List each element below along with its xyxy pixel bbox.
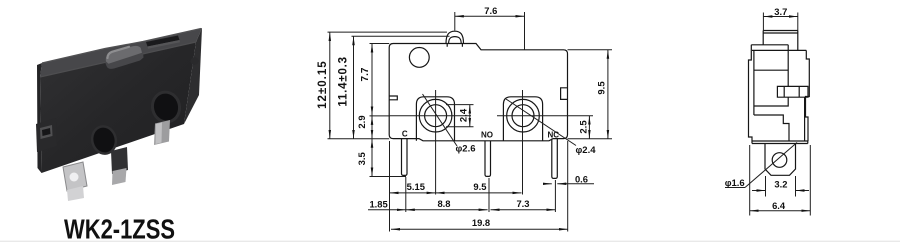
base plate <box>752 141 808 144</box>
dim 3.5 <box>371 139 373 177</box>
hole 2 boss <box>503 97 542 141</box>
svg-text:7.7: 7.7 <box>360 67 371 81</box>
leader phi2.6 <box>423 94 458 146</box>
dim 0.6 <box>544 183 552 185</box>
ext top line 11.4 <box>352 35 450 37</box>
ext body bottom left <box>328 138 390 140</box>
svg-text:0.6: 0.6 <box>575 174 588 185</box>
dim 3.2 <box>752 190 766 192</box>
ext top line 12 <box>328 31 448 33</box>
inner contour upper <box>754 45 788 115</box>
button dome inner <box>449 37 462 44</box>
svg-text:2.9: 2.9 <box>357 115 368 128</box>
terminal hole <box>772 153 787 168</box>
ext 2.4 ticks <box>446 104 474 106</box>
centerline hole2 vertical <box>522 90 524 195</box>
svg-text:7.3: 7.3 <box>516 198 529 209</box>
switch right end sliver <box>184 28 202 124</box>
dim 9.5 right <box>607 50 609 139</box>
svg-text:3.7: 3.7 <box>774 6 787 17</box>
ext 3.7 <box>762 13 764 31</box>
ext bottom verticals <box>389 141 391 232</box>
ext 7.6 left <box>454 12 456 31</box>
side body top lid <box>751 45 806 51</box>
svg-text:2.5: 2.5 <box>579 120 590 134</box>
right edge notch <box>561 88 568 100</box>
leader phi2.4 <box>506 99 576 146</box>
svg-text:1.85: 1.85 <box>369 198 387 209</box>
svg-text:6.4: 6.4 <box>772 200 786 211</box>
body outline <box>389 44 567 141</box>
pin C <box>402 139 408 176</box>
front hole 1 <box>88 122 120 157</box>
svg-text:C: C <box>402 130 408 139</box>
svg-text:NC: NC <box>548 131 560 140</box>
svg-text:φ1.6: φ1.6 <box>725 178 745 189</box>
svg-text:NO: NO <box>481 131 493 140</box>
svg-text:9.5: 9.5 <box>597 81 608 95</box>
ext 6.4 <box>749 145 751 216</box>
svg-text:3.2: 3.2 <box>774 179 787 190</box>
pin right <box>154 120 170 145</box>
svg-text:9.5: 9.5 <box>473 181 486 192</box>
svg-text:5.15: 5.15 <box>407 181 425 192</box>
top pivot hole <box>409 48 429 68</box>
side body right edge <box>806 50 810 141</box>
svg-text:11.4±0.3: 11.4±0.3 <box>338 56 350 106</box>
svg-text:3.5: 3.5 <box>357 151 368 165</box>
svg-text:2.4: 2.4 <box>459 108 470 122</box>
ext body top left (7.7) <box>370 43 390 45</box>
dim 6.4 <box>750 210 811 212</box>
switch top face <box>40 28 202 77</box>
centerline hole1 horizontal <box>390 115 471 117</box>
svg-text:8.8: 8.8 <box>437 198 450 209</box>
ridge highlight <box>40 42 196 77</box>
svg-text:12±0.15: 12±0.15 <box>317 60 329 109</box>
ext right top <box>568 49 613 51</box>
switch front face <box>40 42 196 173</box>
ext pin bottom left <box>370 176 407 178</box>
pin NC <box>552 139 558 179</box>
dim 11.4 <box>353 36 355 139</box>
left edge notch <box>389 96 397 100</box>
dim 9.5 bottom <box>436 192 522 194</box>
dim 7.7 <box>371 44 373 116</box>
dim 19.8 <box>391 228 568 230</box>
terminal slot rect <box>777 86 808 97</box>
centerline hole2 horizontal <box>497 115 593 117</box>
svg-text:φ2.6: φ2.6 <box>455 144 475 155</box>
centerline hole1 vertical <box>435 90 437 195</box>
side body left edge <box>749 45 753 141</box>
pivot bump right <box>190 57 198 65</box>
ext 3.2 <box>765 176 767 197</box>
dim 2.5 right <box>588 116 590 139</box>
button stem lines <box>447 44 462 47</box>
ext hole centerline tick left <box>370 115 391 117</box>
dim 3.7 <box>763 16 797 18</box>
pin left (bright) <box>63 162 87 191</box>
front hole 2 <box>147 87 184 126</box>
top face slot <box>146 36 180 47</box>
dim 12 <box>329 32 331 139</box>
dim 2.4 <box>469 105 471 127</box>
button dome outer <box>446 31 464 43</box>
dim 2.9 <box>371 116 373 139</box>
dim 1.85 <box>368 209 406 211</box>
bottom faint edge <box>0 241 900 242</box>
dim 7.3 <box>491 209 556 211</box>
middle drawing texts <box>317 5 608 228</box>
leader phi1.6 <box>725 187 745 189</box>
terminal block <box>765 144 796 176</box>
dim 8.8 <box>406 209 488 211</box>
inner contour lower <box>754 97 805 141</box>
dim 5.15 <box>390 192 436 194</box>
plunger button <box>105 46 143 69</box>
ext 7.6 right <box>524 12 526 50</box>
svg-text:7.6: 7.6 <box>484 5 497 16</box>
left latch <box>36 118 57 152</box>
hole 1 circles <box>419 99 452 132</box>
hole 2 circles <box>507 99 540 132</box>
side outline left <box>763 31 798 51</box>
dim 7.6 <box>455 15 525 17</box>
pin middle <box>111 147 128 174</box>
hole 1 boss <box>416 97 454 141</box>
svg-text:WK2-1ZSS: WK2-1ZSS <box>64 214 175 242</box>
ext right bottom <box>568 138 613 140</box>
svg-text:φ2.4: φ2.4 <box>575 145 596 156</box>
pin NO <box>485 141 491 177</box>
svg-text:19.8: 19.8 <box>472 217 490 228</box>
switch left end face <box>37 63 42 173</box>
